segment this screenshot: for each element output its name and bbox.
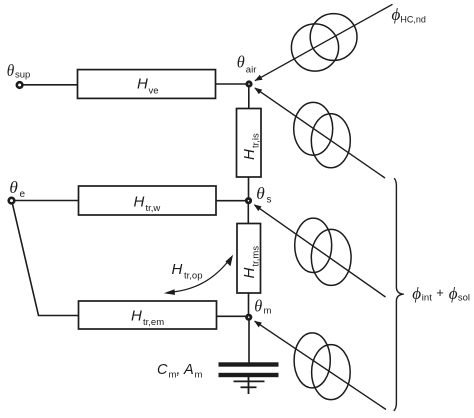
arrowhead into node air from phi_HC,nd (255, 75, 263, 81)
svg-text:H: H (137, 76, 148, 93)
source 2 ellipse 2 (311, 114, 350, 168)
svg-text:H: H (131, 308, 142, 325)
source line 3 to node s (255, 205, 386, 297)
node theta_s (246, 199, 250, 203)
wire H_tr,ms to node m (248, 293, 250, 316)
svg-text:H: H (241, 149, 258, 160)
svg-text:air: air (246, 65, 257, 76)
wire theta_sup to H_ve (22, 84, 78, 86)
svg-text:θ: θ (7, 61, 15, 80)
svg-text:θ: θ (254, 297, 262, 316)
capacitor C_m top plate (219, 362, 279, 366)
svg-text:+: + (436, 285, 444, 300)
svg-text:tr,op: tr,op (184, 271, 203, 282)
wire node s to H_tr,ms (247, 201, 249, 224)
svg-text:m: m (264, 306, 272, 317)
resistor H_tr,w (79, 186, 217, 215)
svg-text:A: A (183, 362, 194, 378)
svg-text:int: int (422, 293, 432, 304)
svg-text:tr,is: tr,is (251, 133, 262, 148)
source phi_HC,nd circle 1 (291, 24, 338, 71)
svg-text:e: e (20, 189, 26, 200)
source phi_HC,nd circle 2 (310, 14, 357, 61)
svg-text:θ: θ (256, 184, 265, 203)
svg-text:tr,w: tr,w (146, 203, 161, 214)
svg-text:ϕ: ϕ (392, 5, 401, 24)
node theta_m (247, 315, 251, 319)
ground bar 1 (234, 380, 265, 382)
source 4 ellipse 2 (312, 345, 351, 400)
resistor H_tr,em (79, 301, 217, 329)
source 3 ellipse 2 (311, 229, 351, 285)
svg-text:θ: θ (9, 178, 18, 197)
wire theta_e diagonal to H_tr,em (13, 204, 80, 316)
node theta_e (9, 198, 15, 204)
svg-text:HC,nd: HC,nd (400, 14, 426, 24)
svg-text:sup: sup (15, 70, 30, 81)
svg-text:H: H (172, 261, 183, 278)
svg-text:H: H (134, 194, 145, 211)
resistor H_ve (78, 70, 216, 99)
svg-text:m: m (169, 370, 177, 381)
svg-text:H: H (241, 268, 258, 279)
arrowhead into node m from source 4 (254, 321, 262, 328)
wire H_tr,em to node m (216, 315, 247, 317)
wire theta_e to H_tr,w (14, 200, 79, 202)
svg-text:ve: ve (149, 86, 159, 97)
wire node air to H_tr,is (248, 85, 250, 109)
capacitor C_m bottom plate (219, 373, 279, 377)
node theta_air (247, 82, 251, 86)
svg-text:C: C (157, 362, 168, 378)
svg-text:tr,em: tr,em (143, 317, 164, 328)
ground bar 2 (241, 386, 257, 388)
ground stem (248, 377, 250, 394)
svg-text:θ: θ (237, 53, 245, 72)
resistor H_tr,ms (vertical) (237, 224, 261, 294)
wire H_tr,w to node s (215, 200, 247, 202)
wire node m to capacitor (248, 318, 250, 364)
node theta_sup (17, 82, 23, 88)
source phi_HC,nd line (255, 4, 393, 80)
source 4 ellipse 1 (294, 333, 330, 388)
wire H_ve to node air (216, 83, 248, 85)
arrowhead into node air from source 2 (254, 88, 262, 95)
source 2 ellipse 1 (294, 102, 333, 155)
source 3 ellipse 1 (295, 218, 332, 272)
resistor H_tr,is (vertical) (237, 109, 262, 178)
svg-text:ϕ: ϕ (412, 284, 421, 303)
svg-text:s: s (267, 195, 272, 206)
brace phi_int + phi_sol (394, 178, 404, 411)
wire H_tr,is to node s (248, 177, 250, 200)
source line 2 to node air (255, 88, 385, 178)
source line 4 to node m (255, 321, 386, 409)
curved arrow H_tr,op (double headed) (168, 258, 232, 293)
svg-text:ϕ: ϕ (449, 284, 458, 303)
svg-text:,: , (176, 362, 180, 378)
arrowhead into node s from source 3 (254, 204, 262, 211)
svg-text:tr,ms: tr,ms (251, 246, 262, 267)
svg-text:sol: sol (458, 293, 470, 304)
svg-text:m: m (195, 370, 203, 381)
